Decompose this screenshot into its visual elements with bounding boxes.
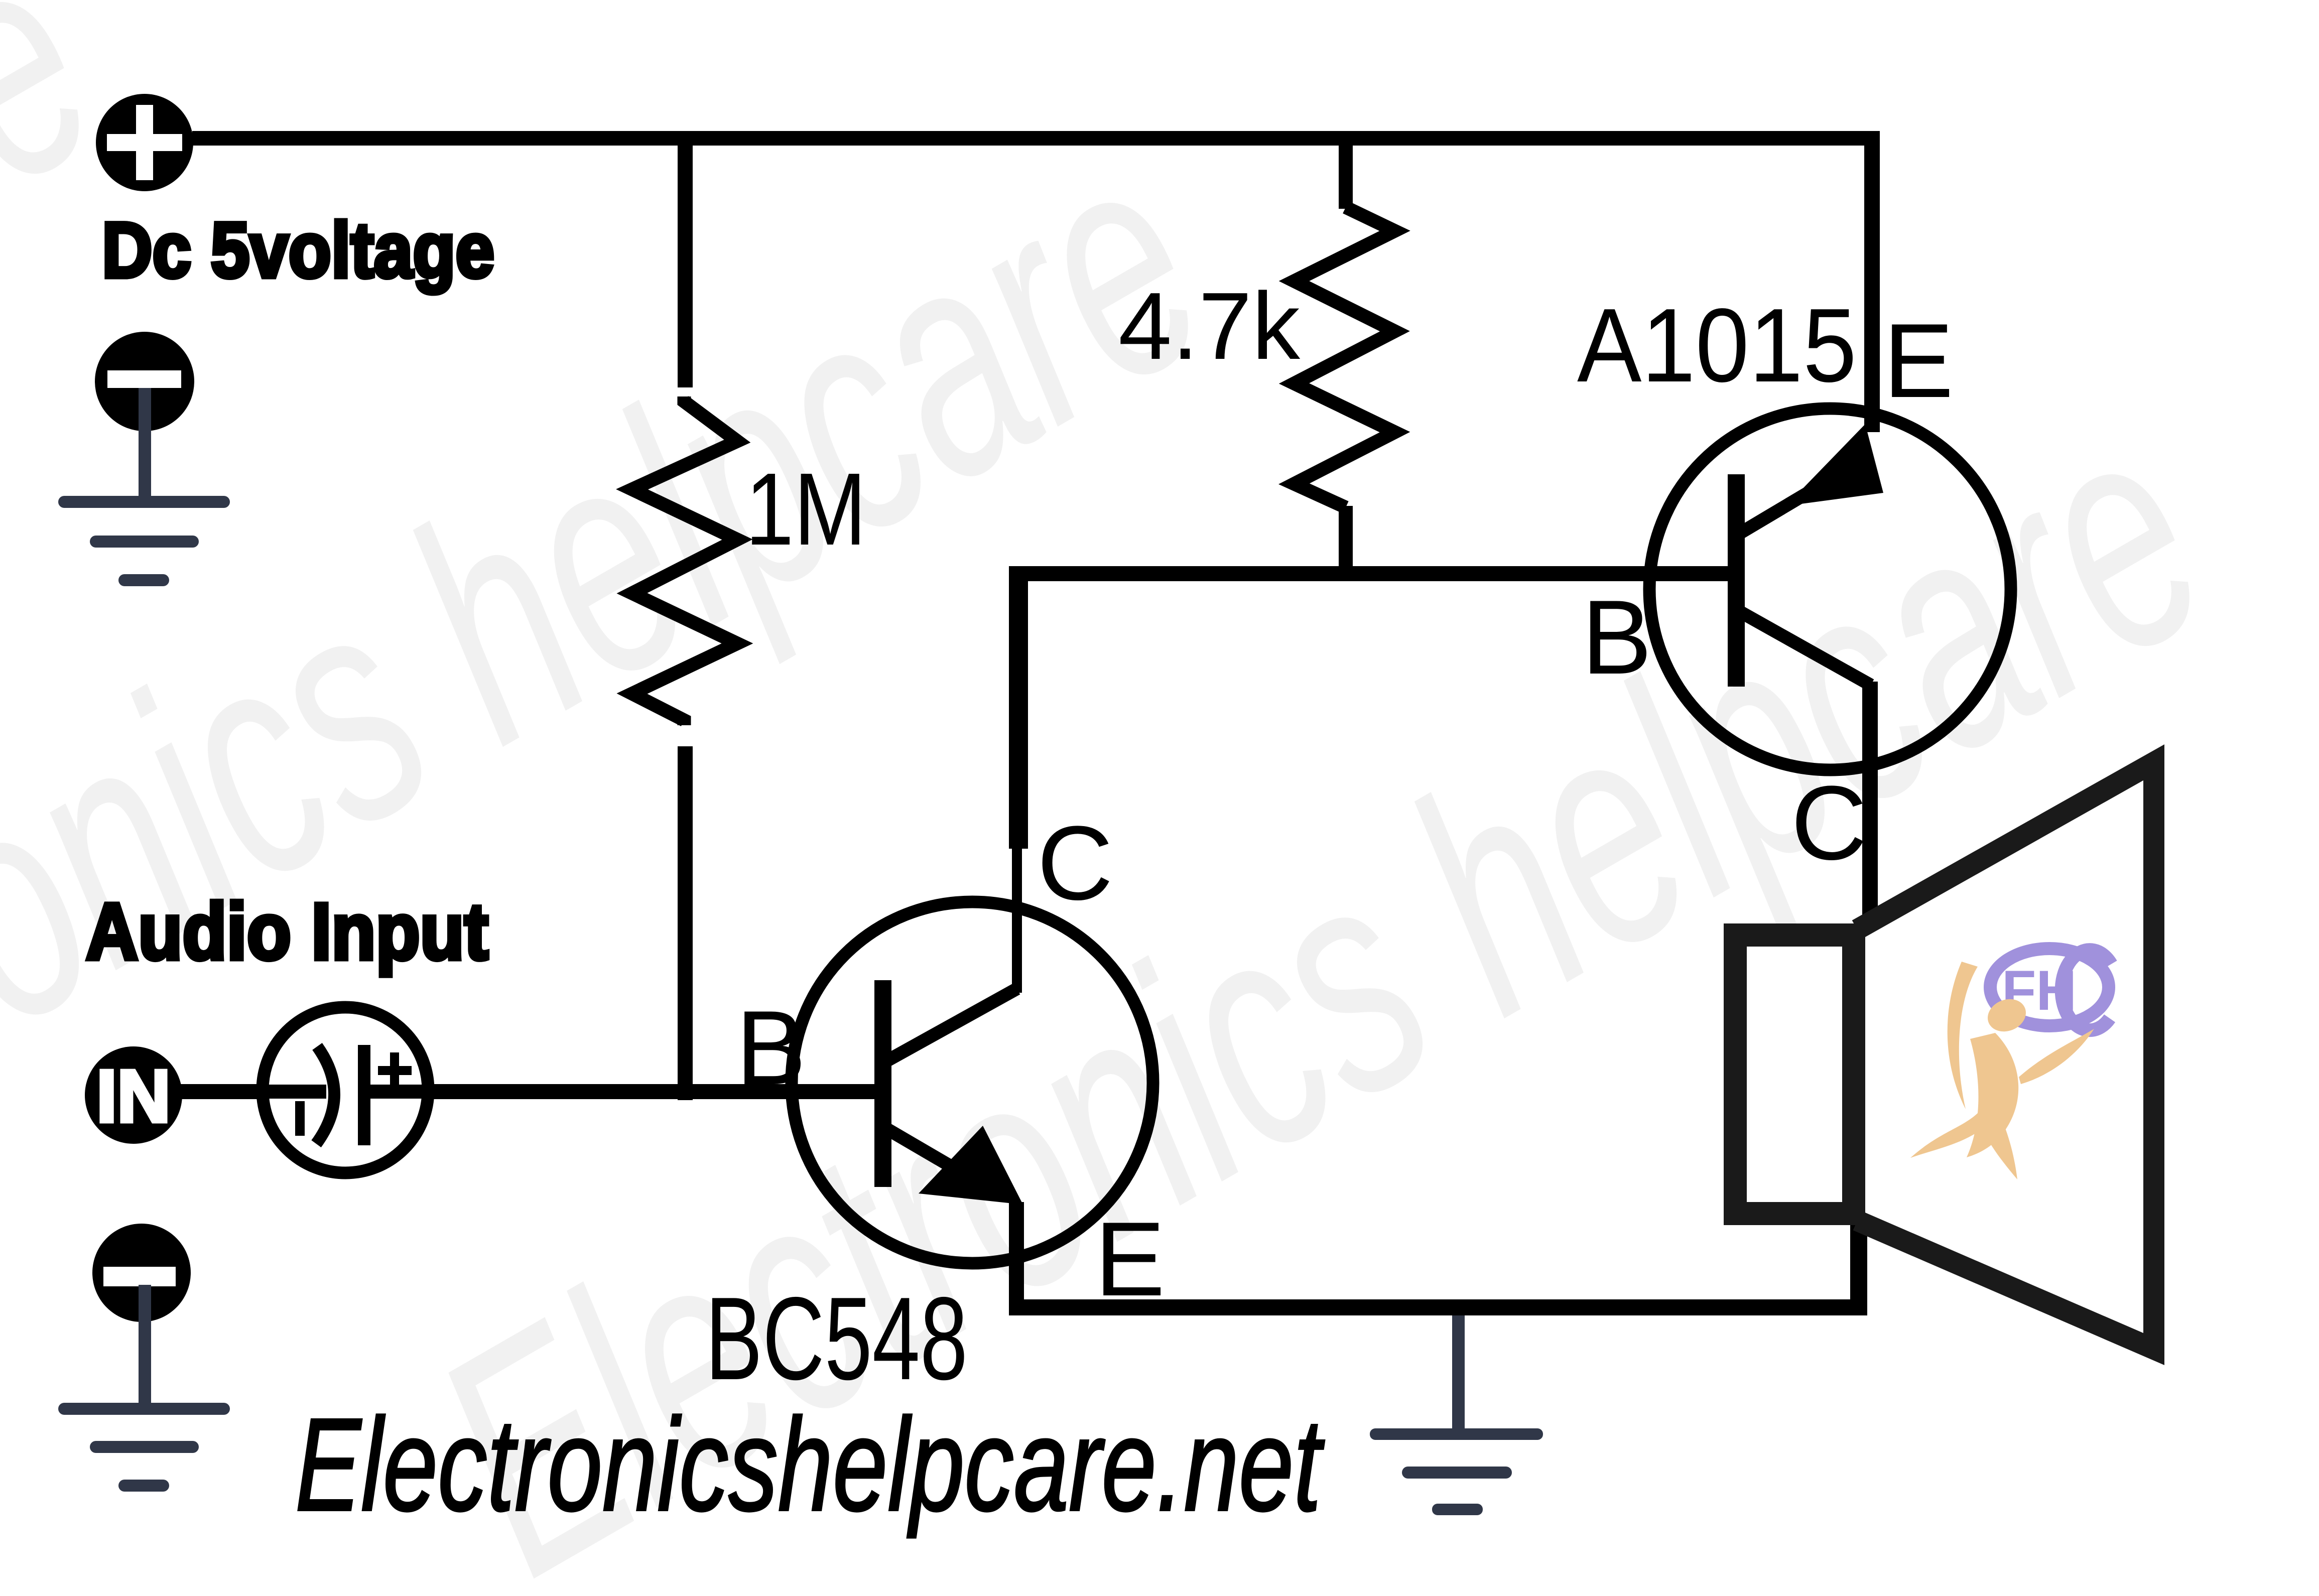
wire 4.7k top lead — [1339, 131, 1353, 209]
ground (audio input) — [58, 1285, 230, 1492]
resistor R2 4.7k — [1294, 207, 1395, 507]
node IN terminal — [85, 1046, 182, 1144]
ground (battery negative) — [58, 388, 230, 586]
svg-text:BC548: BC548 — [705, 1272, 968, 1404]
ground (bottom rail) — [1370, 1315, 1543, 1515]
capacitor C1 audio coupling — [263, 1007, 430, 1173]
wire 1M bottom lead to base node — [678, 746, 693, 1100]
svg-text:C: C — [1791, 764, 1867, 882]
battery negative terminal — [95, 332, 194, 431]
svg-text:B: B — [736, 989, 806, 1107]
svg-text:C: C — [1037, 804, 1113, 922]
wire 4.7k bottom lead — [1339, 506, 1353, 569]
svg-text:IN: IN — [96, 1055, 171, 1138]
wire audio input IN to capacitor — [181, 1084, 266, 1099]
speaker driver box — [1735, 935, 1854, 1214]
transistor Q2 A1015 (PNP) — [1649, 409, 2011, 770]
audio input negative terminal — [92, 1224, 191, 1322]
transistor Q1 BC548 (NPN) — [792, 847, 1153, 1299]
battery positive terminal — [96, 94, 193, 191]
wire speaker drop to bottom rail — [1850, 1207, 1867, 1315]
wire A1015 collector lead to speaker — [1862, 682, 1878, 928]
svg-text:Audio Input: Audio Input — [86, 886, 488, 976]
wire capacitor to BC548 base — [427, 1084, 886, 1099]
svg-text:E: E — [1883, 302, 1954, 420]
svg-text:1M: 1M — [745, 452, 866, 567]
wire top rail (+5V) — [192, 131, 1880, 146]
svg-text:Electronicshelpcare.net: Electronicshelpcare.net — [295, 1391, 1325, 1539]
wire bottom rail (emitter/speaker/ground) — [1009, 1299, 1867, 1315]
svg-text:4.7k: 4.7k — [1118, 273, 1301, 379]
resistor R1 1M — [632, 396, 737, 725]
wire drop from base rail to BC548 collector — [1009, 566, 1028, 849]
svg-text:E: E — [1095, 1200, 1165, 1318]
wire right vertical to A1015 emitter — [1864, 131, 1880, 432]
svg-text:Dc 5voltage: Dc 5voltage — [102, 207, 494, 294]
wire 1M top lead — [678, 131, 693, 387]
svg-text:A1015: A1015 — [1577, 287, 1857, 404]
FHC logo (Electronics help care) — [1910, 949, 2111, 1179]
wire A1015 base rail — [1009, 566, 1736, 581]
svg-text:B: B — [1582, 578, 1652, 696]
speaker horn — [1857, 762, 2154, 1349]
